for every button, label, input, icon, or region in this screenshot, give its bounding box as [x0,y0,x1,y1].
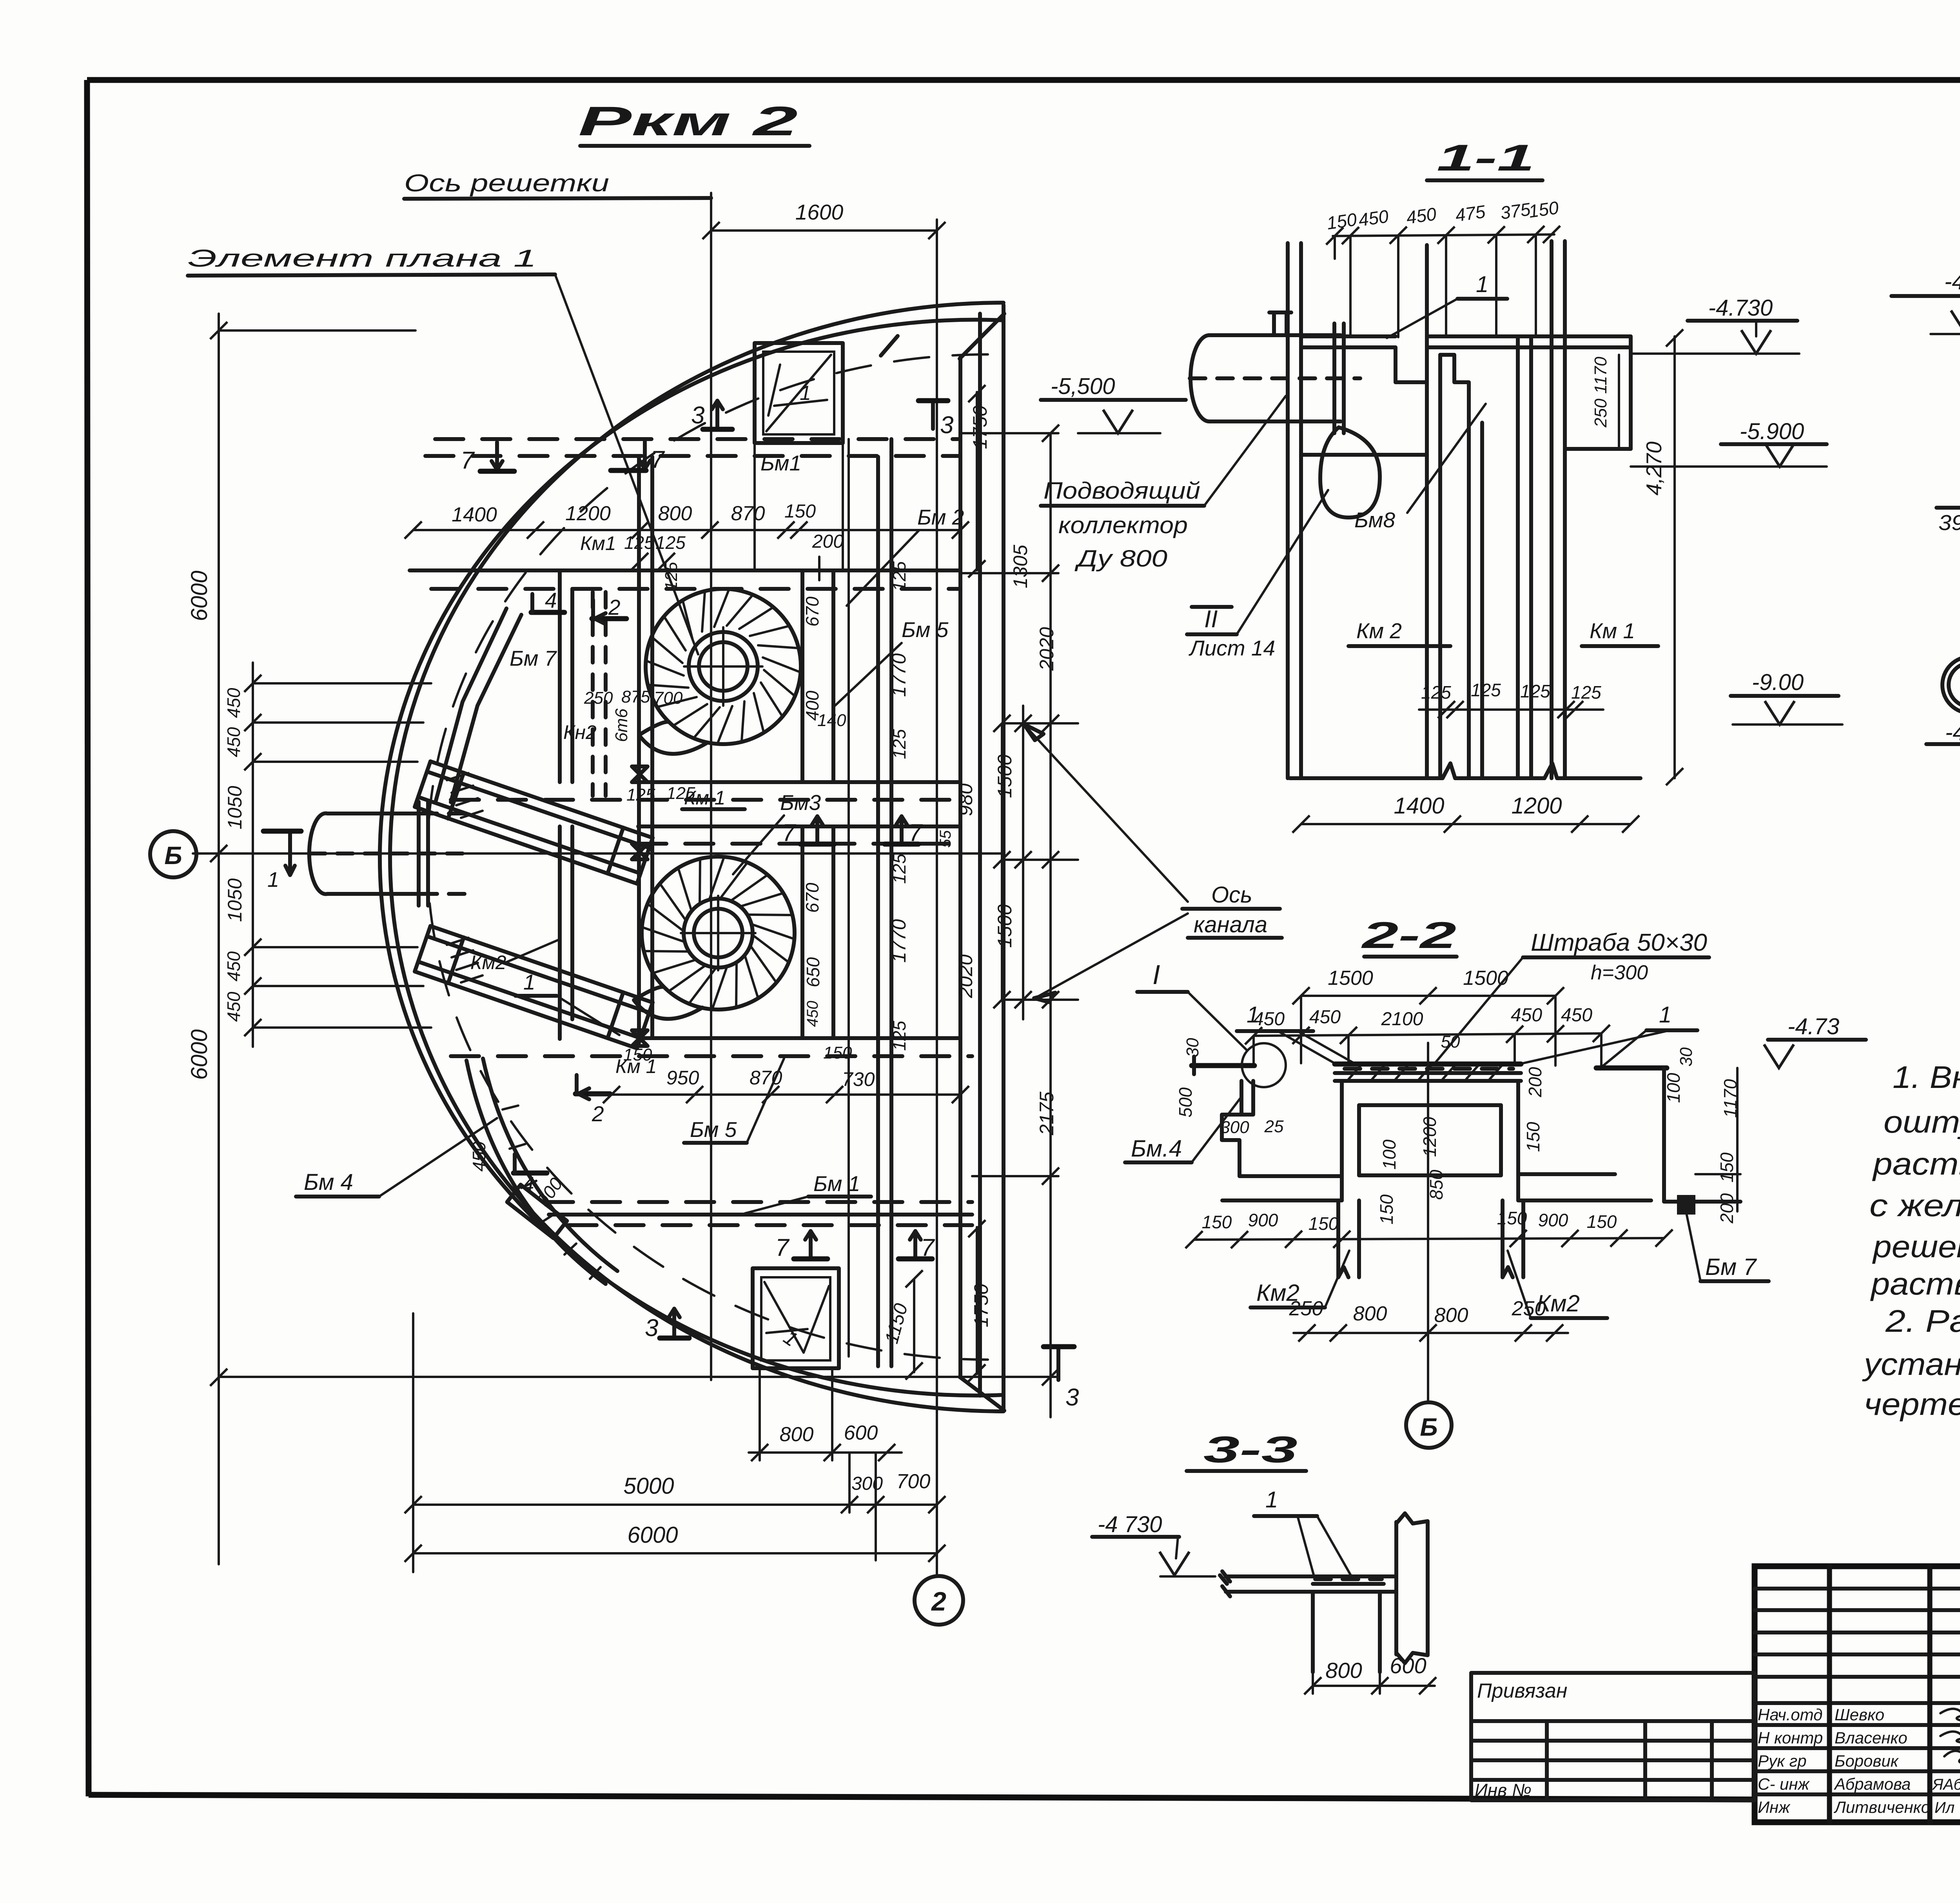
svg-text:-9.00: -9.00 [1752,670,1804,695]
node I detail [1926,720,1960,859]
svg-text:-4.730: -4.730 [1945,720,1960,745]
svg-text:7: 7 [921,1234,935,1261]
svg-text:950: 950 [666,1067,699,1089]
svg-text:Литвиченко: Литвиченко [1833,1798,1930,1816]
walls [1286,243,1290,778]
pedestals [1336,1200,1340,1277]
svg-text:1050: 1050 [224,878,246,922]
svg-text:125: 125 [624,532,654,553]
section 7-7 [1891,180,1960,713]
svg-text:1400: 1400 [1394,793,1444,819]
svg-text:300: 300 [851,1473,883,1494]
svg-text:1750: 1750 [970,1284,992,1327]
svg-text:оштукатурить цементно-песчаны: оштукатурить цементно-песчаным [1884,1104,1960,1139]
svg-text:150: 150 [1523,1122,1543,1152]
svg-text:Штраба 50×30: Штраба 50×30 [1531,929,1707,956]
svg-text:450: 450 [223,688,244,718]
top slab left wing [1192,1063,1254,1068]
svg-text:раствором: раствором [1870,1266,1960,1301]
svg-text:Подводящий: Подводящий [1044,478,1200,504]
walls below [1311,1592,1315,1672]
svg-text:Власенко: Власенко [1835,1729,1907,1747]
svg-text:Инж: Инж [1758,1798,1791,1816]
4270 dim [1673,336,1676,778]
svg-text:7: 7 [775,1234,790,1261]
svg-text:Рук гр: Рук гр [1758,1752,1807,1770]
svg-text:3: 3 [691,402,704,429]
center slab [1335,1062,1521,1067]
svg-text:450: 450 [804,1001,821,1027]
svg-text:Бм 2: Бм 2 [917,505,964,529]
right wing [1596,1066,1667,1071]
left dims [218,314,220,1564]
left block step [1222,1081,1253,1176]
svg-text:150: 150 [784,501,816,522]
svg-text:200: 200 [812,531,844,552]
svg-text:1: 1 [800,382,811,405]
svg-text:4: 4 [522,1172,534,1197]
hopper blob below pipe [1320,427,1380,518]
svg-text:Ось решетки: Ось решетки [404,170,609,197]
svg-text:Км1: Км1 [580,532,616,554]
svg-text:Бм 7: Бм 7 [1705,1254,1757,1280]
upper guide channel [430,761,653,838]
svg-text:3: 3 [1065,1384,1079,1411]
svg-text:800: 800 [780,1423,814,1446]
svg-text:2. Рамы шиберов и ремонтных: 2. Рамы шиберов и ремонтных решеток [1885,1304,1960,1338]
bottom break line [1290,763,1641,778]
svg-text:200: 200 [1525,1067,1545,1097]
svg-text:1200: 1200 [1511,793,1562,819]
svg-text:Боровик: Боровик [1835,1752,1899,1770]
svg-text:150: 150 [1527,197,1560,222]
svg-text:1: 1 [523,970,535,994]
svg-text:1500: 1500 [994,904,1016,948]
svg-text:150: 150 [1308,1213,1339,1234]
svg-text:установить в соответствии с: установить в соответствии с механическим… [1862,1347,1960,1382]
svg-text:870: 870 [750,1067,782,1089]
svg-text:Бм1: Бм1 [760,451,801,475]
svg-text:30: 30 [1183,1038,1202,1057]
svg-text:5000: 5000 [623,1473,674,1499]
svg-text:670: 670 [802,882,822,913]
svg-text:870: 870 [731,502,765,525]
svg-text:125: 125 [1520,681,1550,701]
right wall band [958,358,962,1377]
svg-text:7: 7 [782,819,797,846]
svg-text:670: 670 [802,596,822,626]
svg-text:Бм.4: Бм.4 [1131,1135,1182,1162]
svg-text:Бм 4: Бм 4 [304,1169,353,1195]
svg-text:100: 100 [1663,1073,1684,1103]
svg-text:Бм 5: Бм 5 [902,617,949,642]
svg-text:450: 450 [469,1141,489,1171]
top slabs [1301,334,1396,338]
svg-text:1500: 1500 [994,754,1016,798]
svg-text:канала: канала [1194,912,1267,937]
svg-text:ЯАброз: ЯАброз [1932,1776,1960,1793]
svg-text:Ось: Ось [1211,882,1252,908]
left pipe [327,812,421,815]
center axis [1427,1043,1429,1403]
svg-text:Ил: Ил [1935,1799,1955,1816]
svg-text:2100: 2100 [1381,1009,1423,1030]
svg-text:Привязан: Привязан [1477,1680,1567,1702]
svg-text:450: 450 [1511,1005,1542,1026]
interior walls verticals [637,457,641,1038]
svg-text:Бм 5: Бм 5 [690,1117,737,1142]
svg-text:1200: 1200 [565,502,611,525]
svg-text:h=300: h=300 [1591,961,1648,984]
svg-text:раствором состава 1 2, толщи: раствором состава 1 2, толщиной 20мм [1872,1146,1960,1181]
svg-text:1-1: 1-1 [1437,137,1535,179]
pipe [1209,333,1341,337]
section 1-1 [1041,137,1842,833]
svg-text:2-2: 2-2 [1361,915,1456,956]
svg-text:1500: 1500 [1328,967,1373,990]
svg-text:2020: 2020 [1036,627,1058,671]
svg-text:700: 700 [654,688,683,708]
svg-text:980: 980 [955,783,976,816]
svg-text:Шевко: Шевко [1835,1705,1884,1724]
svg-text:1. Внутренние поверхности л: 1. Внутренние поверхности лотков [1893,1060,1960,1095]
svg-text:1: 1 [1476,272,1488,297]
svg-text:Бм3: Бм3 [780,790,821,815]
svg-text:Км 2: Км 2 [1356,619,1402,643]
plan titles and dimensions [150,98,1282,1625]
right wall [1394,1522,1398,1654]
privyazan table [1471,1673,1755,1800]
inner column walls [558,570,562,782]
svg-text:2175: 2175 [1036,1091,1058,1135]
svg-text:Бм 7: Бм 7 [510,646,557,670]
svg-text:3: 3 [940,412,953,439]
svg-text:1500: 1500 [1463,967,1508,990]
svg-text:1770: 1770 [888,653,910,697]
svg-text:6т6: 6т6 [612,708,631,742]
mark 1 left [288,832,292,875]
svg-text:-4 730: -4 730 [1098,1512,1162,1537]
section marks 7 top [495,442,499,469]
svg-text:200: 200 [1717,1193,1737,1224]
svg-text:решеток стены затереть цемен: решеток стены затереть цементным [1872,1229,1960,1264]
svg-text:Км 1: Км 1 [684,787,725,809]
svg-text:Инв №: Инв № [1475,1780,1532,1800]
svg-text:150: 150 [623,1045,652,1064]
circled B under [1406,1402,1452,1448]
svg-text:3-3: 3-3 [1203,1429,1298,1471]
slab [1226,1574,1387,1578]
upper door opening [755,343,843,443]
svg-text:500: 500 [1175,1087,1196,1117]
svg-text:1770: 1770 [888,919,910,962]
svg-text:25: 25 [1264,1117,1284,1136]
step detail at mid-top [1440,355,1469,423]
svg-text:450: 450 [1357,206,1390,230]
svg-text:Лист 14: Лист 14 [1189,636,1275,660]
svg-text:125: 125 [889,1021,909,1051]
svg-text:3: 3 [645,1315,658,1342]
svg-text:150: 150 [1717,1152,1737,1182]
svg-text:II: II [1204,606,1218,633]
svg-text:Бм 1: Бм 1 [813,1171,860,1196]
svg-text:450: 450 [1309,1007,1341,1028]
svg-text:с железнением На участке уст: с железнением На участке установки [1869,1188,1960,1223]
svg-text:100: 100 [1379,1139,1399,1169]
lower door opening [753,1268,839,1368]
svg-text:1750: 1750 [969,405,991,449]
section marks 3 top [715,401,719,428]
svg-text:1050: 1050 [224,786,246,829]
svg-text:Ркм 2: Ркм 2 [578,98,798,144]
svg-text:Км2: Км2 [470,951,506,973]
svg-text:1400: 1400 [452,503,497,526]
svg-text:6000: 6000 [187,1029,212,1080]
small hatch blocks at channel wall crossings [447,773,483,818]
junction bowties [632,766,648,1046]
mid 7 marks [815,816,819,843]
svg-text:450: 450 [1253,1009,1285,1030]
lower volute [642,857,795,1010]
svg-text:коллектор: коллектор [1058,512,1188,538]
upper volute [646,589,801,744]
svg-text:125: 125 [655,532,686,553]
Bm4 block lower-left [507,1185,567,1238]
lower 7 marks [809,1231,813,1258]
svg-text:125: 125 [1421,682,1451,703]
svg-text:С- инж: С- инж [1758,1775,1810,1793]
svg-text:800: 800 [1434,1304,1468,1327]
svg-text:Ду 800: Ду 800 [1074,545,1167,572]
svg-text:125: 125 [889,853,909,884]
svg-text:475: 475 [1454,201,1487,225]
svg-text:125: 125 [1571,682,1601,703]
svg-text:400: 400 [802,690,822,721]
svg-text:-4.730: -4.730 [1708,295,1773,321]
plan view [193,193,1004,1576]
top dim row [413,529,960,531]
U channel [1340,1081,1344,1200]
svg-text:4: 4 [545,588,557,612]
svg-text:1305: 1305 [1009,545,1031,588]
detail circle [1242,1043,1286,1087]
circled I [1942,657,1960,713]
right wall [1662,1068,1666,1202]
svg-text:Б: Б [164,841,182,870]
svg-text:1: 1 [1659,1002,1671,1028]
interior walls horizontals [435,437,960,441]
svg-text:Бм8: Бм8 [1354,508,1396,532]
extension lines up [1334,236,1336,259]
svg-text:150: 150 [1587,1211,1617,1232]
svg-text:55: 55 [937,830,954,848]
svg-text:6000: 6000 [627,1522,678,1548]
svg-text:450: 450 [223,727,244,757]
axes [710,193,712,1380]
svg-text:375: 375 [1499,199,1532,223]
svg-text:-5,500: -5,500 [1051,374,1115,399]
curved wall Bm4 [466,1060,606,1284]
svg-text:Кн2: Кн2 [563,721,597,743]
svg-text:800: 800 [1325,1658,1362,1683]
svg-text:3902 1-10 ВЫП 0: 3902 1-10 ВЫП 0 [1938,510,1960,535]
svg-text:-4.730: -4.730 [1944,269,1960,294]
svg-text:850: 850 [1426,1169,1446,1200]
stepped inner walls [436,608,506,801]
svg-text:4,270: 4,270 [1642,441,1666,496]
4 and 2 marks [531,610,564,615]
os kanala leaders [1025,726,1188,902]
lower 3 marks [672,1309,676,1337]
svg-text:Б: Б [1420,1413,1437,1441]
svg-text:7: 7 [651,446,665,473]
svg-text:-4.73: -4.73 [1788,1014,1839,1039]
svg-text:150: 150 [823,1043,852,1062]
title block [1755,1566,1960,1853]
svg-text:Н контр: Н контр [1758,1729,1823,1747]
svg-text:7: 7 [909,819,923,846]
svg-text:Км2: Км2 [1537,1290,1580,1316]
svg-text:450: 450 [1405,203,1438,228]
svg-text:650: 650 [803,957,823,987]
svg-text:125: 125 [889,561,909,591]
svg-text:800: 800 [1353,1302,1387,1325]
svg-text:250 1170: 250 1170 [1591,356,1610,428]
svg-text:150: 150 [1497,1208,1527,1228]
circled B axis [150,831,196,877]
outer shell [390,303,1004,1411]
svg-text:125: 125 [889,729,909,759]
svg-text:900: 900 [1538,1210,1568,1230]
svg-text:125: 125 [1471,680,1501,700]
svg-text:125: 125 [626,785,655,804]
svg-text:2: 2 [931,1587,946,1616]
svg-text:1: 1 [267,868,279,892]
svg-text:Км 1: Км 1 [1590,619,1635,643]
svg-text:Абрамова: Абрамова [1833,1775,1911,1793]
svg-text:600: 600 [1390,1653,1426,1678]
svg-text:800: 800 [658,502,692,525]
svg-text:1200: 1200 [1419,1117,1440,1157]
svg-text:30: 30 [1677,1047,1696,1066]
svg-text:I: I [1152,959,1160,990]
svg-text:2: 2 [592,1102,604,1126]
notes text [1862,1060,1960,1422]
svg-text:250: 250 [584,688,613,708]
svg-text:700: 700 [897,1470,931,1493]
svg-text:7: 7 [461,447,475,474]
section 2-2 [1125,915,1866,1448]
svg-text:чертежами: чертежами [1864,1387,1960,1422]
lower guide channel [430,926,653,1002]
svg-text:2: 2 [608,595,621,619]
svg-text:150: 150 [1376,1194,1397,1224]
svg-text:Нач.отд: Нач.отд [1758,1705,1822,1724]
svg-text:-5.900: -5.900 [1740,419,1804,444]
svg-text:600: 600 [844,1422,878,1444]
svg-text:Элемент плана 1: Элемент плана 1 [188,245,537,272]
svg-text:6000: 6000 [187,570,212,621]
svg-text:450: 450 [223,951,244,981]
svg-text:Км2: Км2 [1256,1280,1299,1306]
svg-text:125: 125 [662,562,681,591]
section 3-3 [1092,1429,1436,1694]
svg-text:450: 450 [223,991,244,1022]
svg-text:900: 900 [1248,1210,1278,1230]
svg-text:1: 1 [1265,1487,1278,1513]
svg-text:150: 150 [1202,1212,1232,1232]
svg-text:875: 875 [621,687,650,706]
svg-text:730: 730 [842,1068,875,1090]
svg-text:2020: 2020 [955,954,976,998]
svg-text:450: 450 [1561,1005,1592,1026]
svg-text:1600: 1600 [795,200,844,224]
